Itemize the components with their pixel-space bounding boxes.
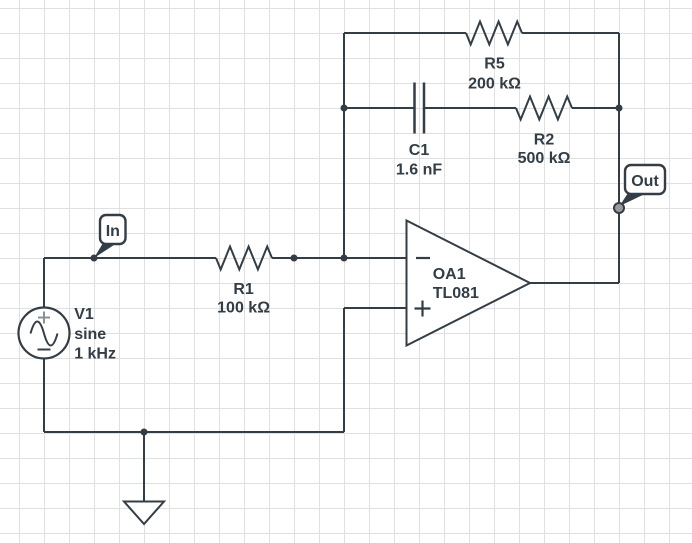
svg-text:100 kΩ: 100 kΩ <box>217 299 270 316</box>
resistor R5 <box>466 22 522 45</box>
svg-text:TL081: TL081 <box>433 285 479 302</box>
wire C1 to R2 <box>424 107 516 109</box>
label R2 value <box>518 132 571 168</box>
label C1 value <box>396 142 442 178</box>
wire C1 left lead <box>344 107 414 109</box>
svg-text:OA1: OA1 <box>433 266 466 283</box>
svg-text:Out: Out <box>631 173 659 190</box>
wire input main <box>44 257 216 259</box>
svg-text:1.6 nF: 1.6 nF <box>396 161 442 178</box>
node Out callout <box>614 165 665 213</box>
svg-text:V1: V1 <box>74 306 94 323</box>
svg-text:1 kHz: 1 kHz <box>74 345 116 362</box>
junction node ground rail <box>141 429 148 436</box>
label OA1 TL081 <box>433 266 479 302</box>
wire top feedback right segment <box>522 32 619 34</box>
wire op-amp plus input <box>344 307 407 309</box>
junction node R2 right <box>616 105 623 112</box>
wire V1 bottom lead <box>43 359 45 433</box>
capacitor C1 <box>415 83 425 134</box>
svg-text:200 kΩ: 200 kΩ <box>468 76 521 93</box>
wire top feedback left segment <box>344 32 466 34</box>
op-amp U1 (OA1) <box>407 221 531 346</box>
wire ground stub <box>143 432 145 501</box>
junction node after In <box>91 255 98 262</box>
wire R2 right lead <box>572 107 619 109</box>
wire V1 top lead <box>43 258 45 308</box>
node In callout <box>94 215 126 258</box>
label R5 value <box>468 55 521 92</box>
ground symbol <box>124 502 164 525</box>
wire plus input vertical <box>343 308 345 432</box>
wire bottom ground rail <box>44 431 344 433</box>
svg-text:R5: R5 <box>484 55 505 72</box>
resistor R2 <box>516 97 572 120</box>
wire right vertical <box>618 33 620 283</box>
wire op-amp output <box>530 282 619 284</box>
svg-text:In: In <box>106 223 120 240</box>
resistor R1 <box>216 247 272 270</box>
svg-text:R2: R2 <box>534 132 555 149</box>
svg-text:sine: sine <box>74 326 106 343</box>
junction node after R1 <box>291 255 298 262</box>
junction node minus input <box>341 255 348 262</box>
wire R1 to op-amp minus input <box>272 257 407 259</box>
voltage source V1 <box>19 308 70 359</box>
svg-text:R1: R1 <box>233 281 254 298</box>
svg-text:C1: C1 <box>409 142 430 159</box>
label R1 value <box>217 281 270 316</box>
junction node C1 wire <box>341 105 348 112</box>
label V1 sine 1 kHz <box>74 306 116 362</box>
wire left feedback vertical <box>343 33 345 258</box>
svg-text:500 kΩ: 500 kΩ <box>518 150 571 167</box>
